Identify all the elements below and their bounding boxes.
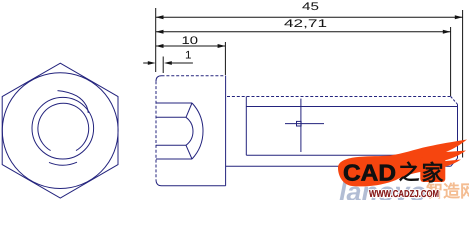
shaft bottom solid [226, 165, 451, 167]
arrow 1 left (outside) [148, 61, 156, 65]
head top dashed [162, 75, 226, 77]
svg-text:45: 45 [302, 1, 319, 13]
D inner top line [156, 116, 186, 118]
svg-text:家: 家 [422, 161, 445, 186]
D connector bottom [186, 145, 192, 159]
thread root top [246, 106, 457, 108]
thread runout arc [49, 162, 77, 165]
shaft top dashed [227, 96, 451, 98]
arrow 42,71 left [156, 30, 164, 34]
ext line left common [155, 8, 157, 72]
ext line 10 right [224, 42, 226, 75]
arrow 1 right (outside) [164, 61, 172, 65]
thread runout vertical [245, 97, 247, 156]
arrow 10 left [156, 44, 164, 48]
circle B major thread circle [32, 97, 94, 159]
arrow 42,71 right [443, 30, 451, 34]
spiral lead-in hook [58, 91, 89, 113]
head left dashed [155, 81, 157, 179]
centre cross vertical [300, 99, 302, 152]
svg-text:42,71: 42,71 [284, 18, 327, 30]
circle A inscribed washer circle [2, 73, 118, 189]
head right edge [225, 76, 227, 186]
head bottom-left corner arc [156, 179, 162, 185]
dim line 42,71 [156, 31, 451, 33]
thread root bottom [246, 154, 457, 156]
dim line 45 [156, 16, 463, 18]
shaft top chamfer [451, 97, 458, 105]
arrow 45 right [455, 15, 463, 19]
ext line 1 tick [162, 57, 164, 74]
svg-text:1: 1 [185, 50, 192, 62]
ext line 42,71 [450, 27, 452, 96]
centre cross horizontal [285, 123, 324, 125]
arrow 45 left [156, 15, 164, 19]
D inner bottom line [156, 144, 186, 146]
ext line 45 [462, 10, 464, 158]
svg-text:10: 10 [182, 35, 199, 47]
D connector top [186, 103, 192, 117]
svg-text:CAD: CAD [343, 160, 396, 186]
D inner arc [186, 117, 193, 145]
head bottom solid [162, 185, 226, 187]
point marker square [297, 121, 302, 126]
arrow 10 right [218, 44, 226, 48]
D outer top line [156, 102, 192, 104]
hexagon [2, 63, 118, 198]
circle C minor thread arc with bottom gap [38, 103, 89, 150]
D outer bottom line [156, 158, 192, 160]
dim line 1 left tail [143, 62, 148, 64]
shaft end face [457, 104, 459, 158]
head top-left corner arc [156, 76, 162, 81]
D outer arc [192, 103, 203, 159]
dim line 10 [156, 45, 226, 47]
orange box for 家 [420, 157, 445, 182]
svg-text:WWW.CADZJ.COM: WWW.CADZJ.COM [369, 189, 439, 200]
orange swoosh [338, 140, 467, 187]
svg-text:之: 之 [399, 161, 420, 185]
dim line 1 right tail [172, 62, 193, 64]
shaft bottom chamfer [451, 158, 458, 166]
